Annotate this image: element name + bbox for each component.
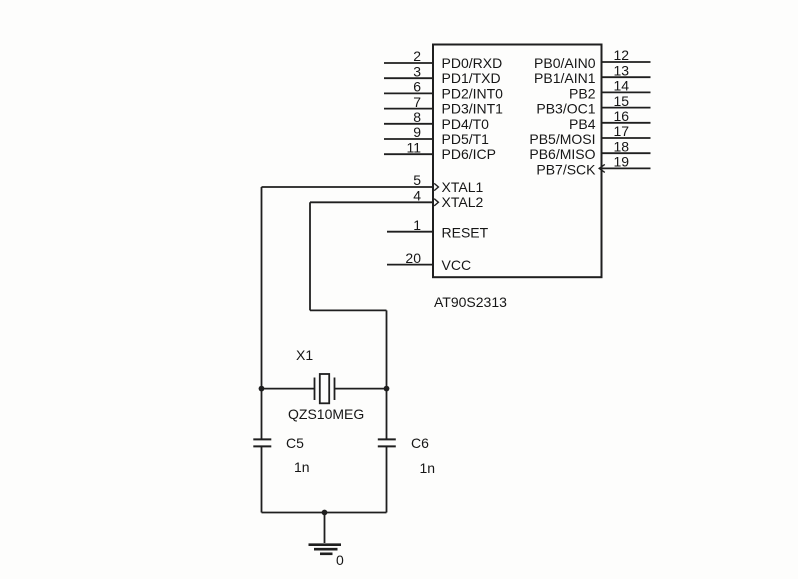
svg-text:X1: X1 [296,347,313,363]
wire pin 20 (VCC) [387,264,433,266]
IC U1 AT90S2313 body outline [433,45,602,278]
wire XTAL1 vertical branch [261,187,263,389]
wire pin 13 (PB1/AIN1) [602,76,651,78]
svg-text:PB2: PB2 [569,85,596,101]
svg-text:PD6/ICP: PD6/ICP [442,146,496,162]
clock input arrow XTAL2 [434,199,438,206]
svg-text:PB6/MISO: PB6/MISO [529,146,595,162]
node junction left of crystal [259,386,265,392]
wire pin 14 (PB2) [602,91,651,93]
wire crystal right lead [335,388,387,390]
svg-text:9: 9 [413,124,421,140]
ground symbol [309,545,342,554]
wire pin 3 (PD1/TXD) [384,77,433,79]
svg-text:PD2/INT0: PD2/INT0 [442,85,504,101]
svg-text:4: 4 [413,188,421,204]
input arrow pin 19 PB7/SCK [599,164,605,172]
wire pin 2 (PD0/RXD) [384,62,433,64]
svg-text:7: 7 [413,94,421,110]
wire pin 6 (PD2/INT0) [384,92,433,94]
svg-text:C6: C6 [411,435,429,451]
svg-text:PB0/AIN0: PB0/AIN0 [534,55,596,71]
svg-text:PD1/TXD: PD1/TXD [442,70,501,86]
wire pin 19 (PB7/SCK) [602,167,651,169]
svg-text:VCC: VCC [442,257,472,273]
svg-text:0: 0 [336,552,344,568]
wire pin 9 (PD5/T1) [384,138,433,140]
svg-text:AT90S2313: AT90S2313 [434,294,507,310]
svg-text:PB1/AIN1: PB1/AIN1 [534,70,596,86]
svg-text:6: 6 [413,79,421,95]
svg-text:18: 18 [614,138,630,154]
svg-text:12: 12 [614,47,630,63]
wire pin 7 (PD3/INT1) [384,108,433,110]
crystal X1 symbol [315,374,335,403]
svg-text:14: 14 [614,78,630,94]
wire pin 4 XTAL2 horizontal [310,201,433,203]
svg-text:XTAL1: XTAL1 [442,179,484,195]
svg-text:RESET: RESET [442,224,489,240]
svg-text:20: 20 [405,250,421,266]
wire pin 11 (PD6/ICP) [384,153,433,155]
wire left branch below C5 [261,446,263,512]
svg-text:PB4: PB4 [569,116,596,132]
wire left branch above C5 [261,389,263,440]
wire right branch above C6 [386,389,388,440]
svg-text:PB5/MOSI: PB5/MOSI [529,131,595,147]
wire pin 16 (PB4) [602,122,651,124]
wire pin 1 (RESET) [387,231,433,233]
wire pin 8 (PD4/T0) [384,123,433,125]
svg-text:1: 1 [413,217,421,233]
clock input arrow XTAL1 [434,183,438,190]
wire XTAL2 vertical upper [309,202,311,310]
wire XTAL2 horizontal jog [310,309,387,311]
svg-text:PD5/T1: PD5/T1 [442,131,490,147]
svg-text:8: 8 [413,109,421,125]
wire pin 5 XTAL1 horizontal [262,186,434,188]
wire ground stem [324,513,326,544]
wire pin 15 (PB3/OC1) [602,107,651,109]
wire pin 17 (PB5/MOSI) [602,137,651,139]
svg-text:17: 17 [614,123,630,139]
capacitor C5 symbol [253,439,271,446]
svg-text:PD0/RXD: PD0/RXD [442,55,503,71]
wire pin 18 (PB6/MISO) [602,152,651,154]
wire pin 12 (PB0/AIN0) [602,61,651,63]
svg-text:15: 15 [614,93,630,109]
node junction bottom rail [322,510,328,516]
node junction right of crystal [384,386,390,392]
wire bottom rail [262,512,387,514]
svg-text:C5: C5 [286,435,304,451]
svg-text:19: 19 [614,154,630,170]
svg-text:5: 5 [413,172,421,188]
wire XTAL2 vertical lower [386,310,388,388]
svg-text:1n: 1n [294,459,310,475]
wire right branch below C6 [386,446,388,512]
capacitor C6 symbol [378,439,396,446]
wire crystal left lead [262,388,315,390]
svg-text:13: 13 [614,62,630,78]
svg-text:3: 3 [413,63,421,79]
svg-text:2: 2 [413,48,421,64]
svg-text:16: 16 [614,108,630,124]
svg-text:PB7/SCK: PB7/SCK [536,161,596,177]
svg-text:1n: 1n [420,460,436,476]
svg-text:QZS10MEG: QZS10MEG [288,406,364,422]
svg-text:PB3/OC1: PB3/OC1 [536,101,595,117]
svg-text:XTAL2: XTAL2 [442,194,484,210]
svg-text:11: 11 [406,139,421,155]
svg-text:PD4/T0: PD4/T0 [442,116,490,132]
svg-text:PD3/INT1: PD3/INT1 [442,101,504,117]
